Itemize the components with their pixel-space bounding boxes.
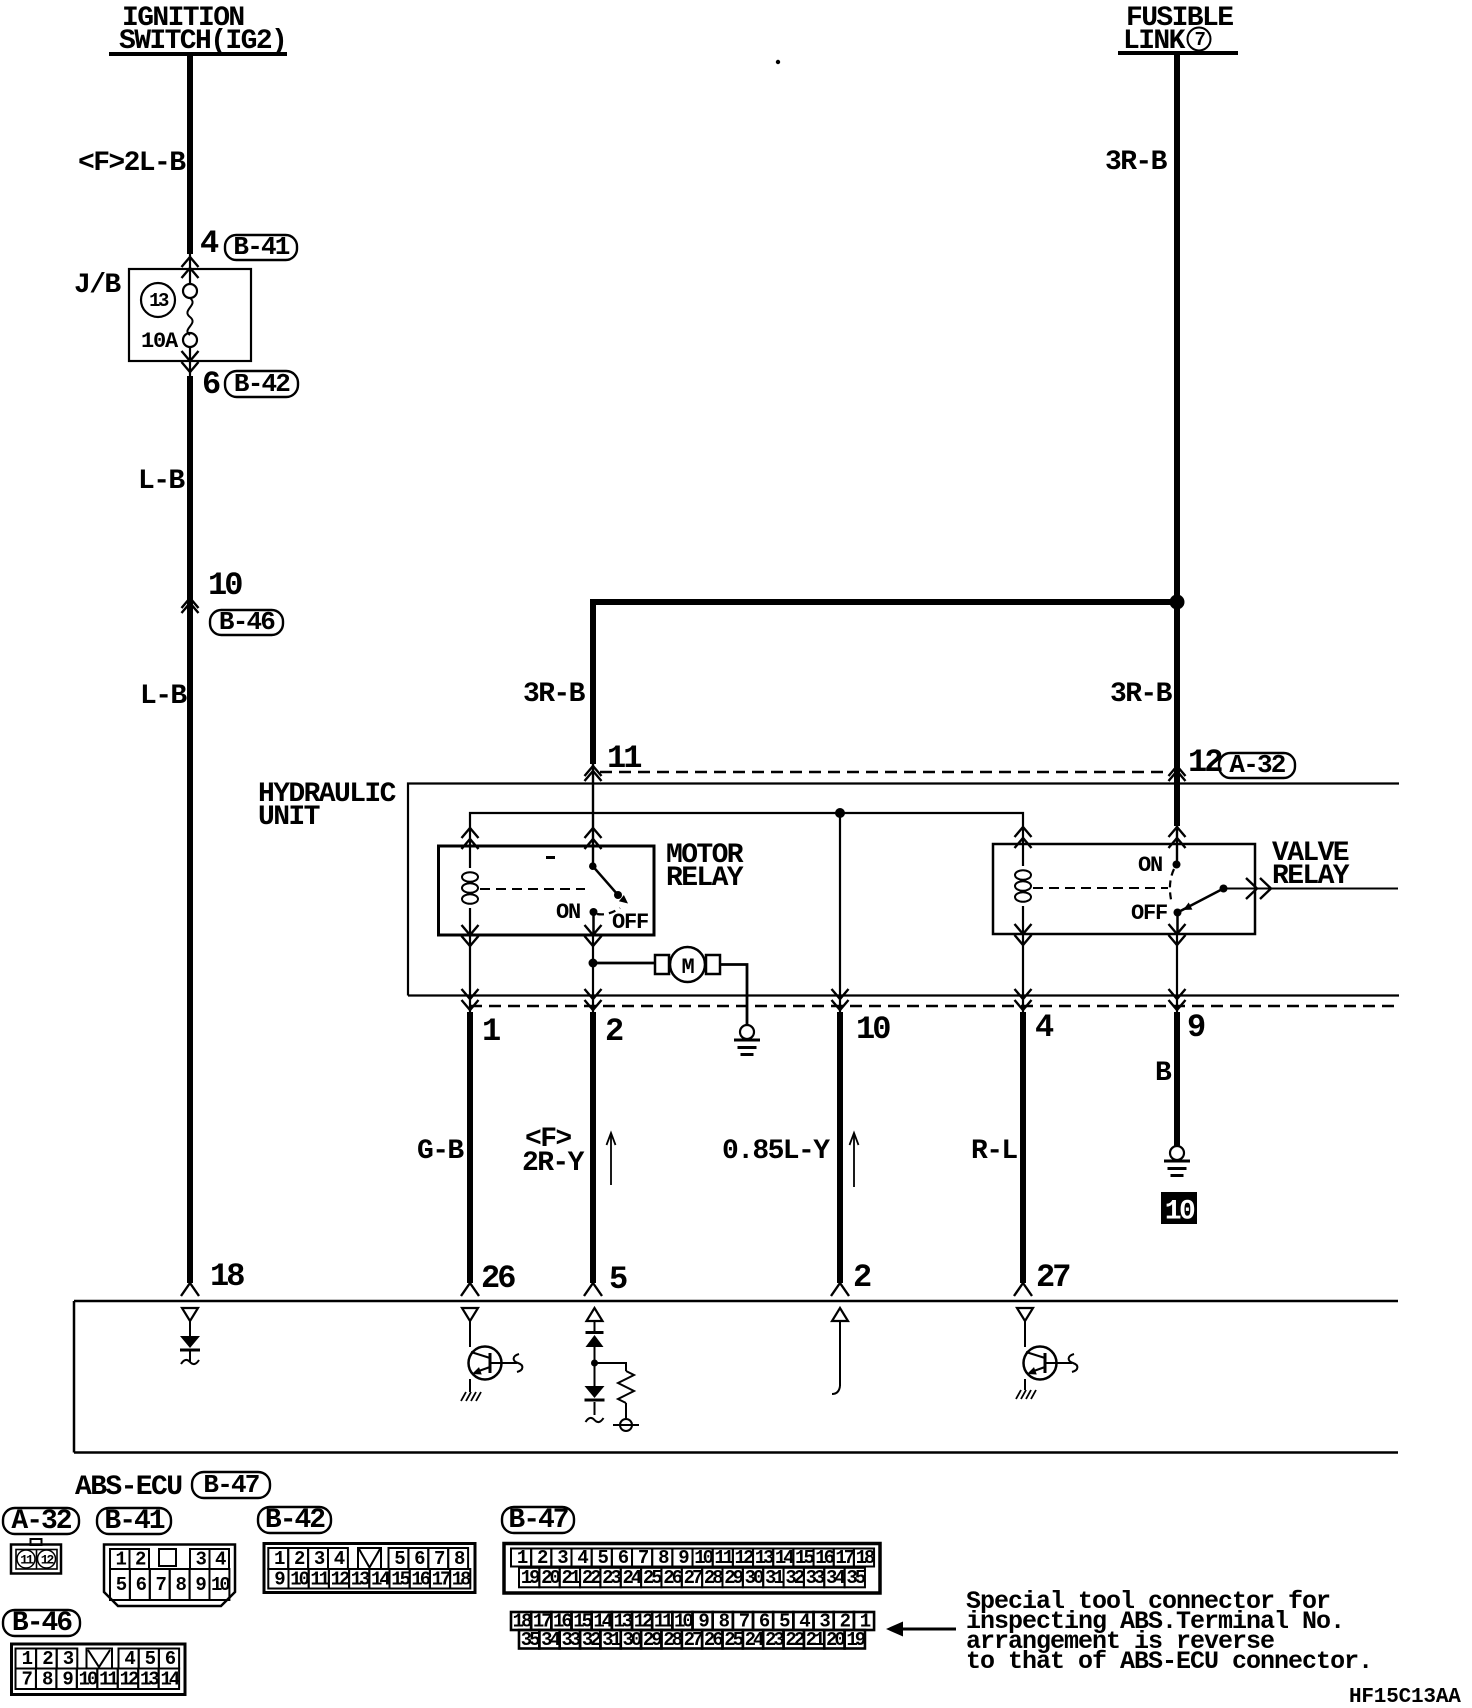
svg-text:11: 11 [714, 1547, 733, 1569]
svg-text:B-41: B-41 [104, 1506, 164, 1537]
junction to pump motor [589, 959, 598, 968]
wire from junction down to pin 10 [839, 813, 841, 1012]
wire 2R-Y pin 2 to ECU pin 5 [584, 1012, 602, 1296]
valve relay coil dashed link [1033, 887, 1168, 889]
svg-text:24: 24 [745, 1629, 764, 1651]
junction to pin 10 [835, 808, 845, 818]
svg-text:4: 4 [200, 225, 219, 262]
pin 4 of connector B-41 [200, 225, 219, 262]
motor relay coil dashed link [480, 888, 585, 890]
svg-text:26: 26 [704, 1629, 723, 1651]
svg-text:J/B: J/B [74, 270, 121, 301]
connector B-46 section label [3, 1608, 80, 1639]
chevrons above motor relay contact [585, 764, 602, 866]
svg-text:13: 13 [140, 1668, 159, 1690]
label (F)2L-B [78, 148, 186, 179]
svg-text:R-L: R-L [971, 1136, 1017, 1167]
wire motor relay contact to pin 2 [592, 935, 594, 1012]
svg-text:9: 9 [1187, 1009, 1205, 1046]
special tool connector pin layout [511, 1611, 874, 1651]
connector B-46 pin layout [12, 1644, 186, 1695]
connector B-41 section label [97, 1506, 171, 1537]
svg-text:34: 34 [826, 1567, 845, 1589]
ABS-ECU label [75, 1472, 182, 1503]
pump motor ground [734, 1025, 760, 1056]
connector B-41 ref label [225, 232, 297, 262]
svg-text:OFF: OFF [1131, 901, 1167, 926]
svg-text:34: 34 [541, 1629, 560, 1651]
label 10A [141, 329, 179, 354]
svg-text:33: 33 [561, 1629, 580, 1651]
connector B-47 pin layout [504, 1544, 880, 1594]
motor relay ON label [556, 900, 580, 925]
svg-text:2: 2 [605, 1013, 623, 1050]
svg-text:12: 12 [120, 1668, 139, 1690]
svg-text:21: 21 [561, 1567, 580, 1589]
wire 3R-B from fusible link [1174, 55, 1180, 826]
svg-text:ON: ON [556, 900, 580, 925]
chevrons below valve relay coil [1015, 924, 1032, 945]
wire (F)2L-B from ignition switch [187, 56, 193, 254]
connector B-47 section label [502, 1505, 574, 1536]
svg-text:2R-Y: 2R-Y [522, 1148, 585, 1179]
connector chevrons B-46 [182, 598, 199, 613]
svg-text:2: 2 [853, 1259, 871, 1296]
label R-L [971, 1136, 1017, 1167]
fuse 13 10A [183, 254, 197, 376]
svg-text:14: 14 [775, 1547, 794, 1569]
label L-B lower [140, 681, 187, 712]
wire 3R-B horizontal branch [590, 599, 1177, 605]
svg-text:26: 26 [663, 1567, 682, 1589]
svg-text:29: 29 [643, 1629, 662, 1651]
svg-text:10: 10 [290, 1568, 309, 1590]
svg-text:19: 19 [521, 1567, 540, 1589]
hydraulic unit pin 1 chevrons [462, 989, 479, 1010]
wire valve relay coil to pin 4 [1022, 934, 1024, 1012]
svg-text:32: 32 [582, 1629, 601, 1651]
svg-text:25: 25 [643, 1567, 662, 1589]
ground at pin 9 wire B [1164, 1146, 1190, 1177]
svg-text:31: 31 [602, 1629, 621, 1651]
motor relay OFF label [612, 910, 648, 935]
ECU internal input at pin 2 [832, 1308, 848, 1394]
svg-text:10: 10 [694, 1547, 713, 1569]
svg-text:27: 27 [684, 1629, 703, 1651]
ECU internal transistor at pin 26 [461, 1308, 522, 1401]
connector chevrons at J/B output [182, 351, 199, 372]
diagram code HF15C13AA [1349, 1686, 1461, 1708]
connector A-32 pin layout [11, 1539, 61, 1574]
valve relay ON label [1138, 853, 1162, 878]
valve relay coil [1015, 844, 1031, 934]
svg-text:3R-B: 3R-B [523, 679, 586, 710]
chevrons above motor relay coil [462, 828, 479, 849]
svg-text:19: 19 [846, 1629, 865, 1651]
svg-text:21: 21 [806, 1629, 825, 1651]
ECU internal diode at pin 18 [180, 1308, 200, 1364]
svg-text:15: 15 [795, 1547, 814, 1569]
svg-text:B-47: B-47 [203, 1470, 258, 1500]
ground point 10 marker [1161, 1192, 1197, 1228]
hydraulic unit pin 2 label [605, 1013, 623, 1050]
hydraulic unit pin 9 chevrons [1169, 989, 1186, 1010]
wire G-B pin 1 to ECU pin 26 [461, 1012, 479, 1296]
svg-text:20: 20 [826, 1629, 845, 1651]
svg-text:G-B: G-B [417, 1136, 464, 1167]
svg-text:23: 23 [602, 1567, 621, 1589]
label L-B upper [138, 466, 185, 497]
svg-text:4: 4 [1035, 1009, 1054, 1046]
connector chevrons A-32 pin 12 [1169, 766, 1186, 781]
svg-text:16: 16 [815, 1547, 834, 1569]
chevrons above valve relay coil [1015, 827, 1032, 848]
svg-text:18: 18 [210, 1258, 244, 1295]
svg-text:10: 10 [856, 1011, 890, 1048]
label 3R-B mid left [523, 679, 586, 710]
svg-text:28: 28 [704, 1567, 723, 1589]
svg-text:RELAY: RELAY [1272, 861, 1350, 892]
fuse number 13 circle [141, 283, 175, 317]
svg-text:18: 18 [856, 1547, 875, 1569]
ECU pin 27 label [1036, 1259, 1070, 1296]
svg-text:11: 11 [99, 1668, 118, 1690]
label G-B [417, 1136, 464, 1167]
ECU pin 26 label [481, 1260, 515, 1297]
pin 10 of connector B-46 [208, 567, 242, 604]
svg-text:<F>2L-B: <F>2L-B [78, 148, 186, 179]
label 0.85L-Y [722, 1136, 830, 1167]
wire B pin 9 to ground [1174, 1012, 1180, 1146]
valve relay switch [1170, 861, 1228, 935]
terminal legs at ECU pin 18 [181, 1283, 199, 1296]
valve relay OFF label [1131, 901, 1167, 926]
svg-text:13: 13 [149, 290, 169, 312]
svg-text:L-B: L-B [138, 466, 185, 497]
hydraulic unit box [258, 779, 1399, 996]
svg-text:ABS-ECU: ABS-ECU [75, 1472, 182, 1503]
label (F)2R-Y [522, 1124, 585, 1179]
hydraulic unit pin 10 label [856, 1011, 890, 1048]
svg-text:33: 33 [806, 1567, 825, 1589]
svg-text:20: 20 [541, 1567, 560, 1589]
svg-text:30: 30 [623, 1629, 642, 1651]
svg-text:UNIT: UNIT [258, 802, 320, 833]
svg-text:10A: 10A [141, 329, 179, 354]
svg-text:17: 17 [432, 1568, 451, 1590]
svg-text:B-47: B-47 [508, 1505, 567, 1536]
svg-text:ON: ON [1138, 853, 1162, 878]
label 3R-B top [1105, 147, 1168, 178]
svg-text:22: 22 [582, 1567, 601, 1589]
motor relay switch [589, 862, 628, 935]
valve relay box [993, 844, 1255, 934]
svg-text:29: 29 [724, 1567, 743, 1589]
svg-text:0.85L-Y: 0.85L-Y [722, 1136, 830, 1167]
motor relay coil [462, 846, 478, 935]
svg-text:L-B: L-B [140, 681, 187, 712]
hydraulic unit pin 9 label [1187, 1009, 1205, 1046]
svg-text:16: 16 [411, 1568, 430, 1590]
wire 3R-B to motor relay [590, 602, 596, 764]
svg-text:18: 18 [452, 1568, 471, 1590]
svg-text:24: 24 [623, 1567, 642, 1589]
connector A-32 dashed boundary [600, 771, 1168, 774]
svg-text:10: 10 [208, 567, 242, 604]
ECU internal transistor at pin 27 [1016, 1308, 1077, 1399]
svg-text:B-46: B-46 [12, 1608, 72, 1639]
svg-text:25: 25 [724, 1629, 743, 1651]
connector B-42 pin layout [264, 1544, 475, 1593]
ECU internal diodes and resistor at pin 5 [585, 1308, 640, 1431]
svg-text:10: 10 [211, 1574, 230, 1596]
svg-text:14: 14 [160, 1668, 179, 1690]
chevrons below motor relay contact [585, 925, 602, 946]
motor relay polarity minus mark [546, 856, 555, 859]
label 3R-B mid right [1110, 679, 1173, 710]
svg-text:B: B [1155, 1058, 1172, 1089]
pin 12 of connector A-32 [1188, 744, 1222, 781]
motor relay box [439, 846, 655, 935]
svg-text:B-46: B-46 [219, 607, 275, 637]
motor relay label [666, 840, 744, 894]
svg-text:27: 27 [1036, 1259, 1070, 1296]
junction block J/B [74, 269, 251, 361]
svg-text:12: 12 [331, 1568, 350, 1590]
wire valve relay contact to pin 9 [1176, 934, 1178, 1012]
svg-text:6: 6 [202, 366, 220, 403]
hydraulic unit pin 4 chevrons [1015, 989, 1032, 1010]
connector chevrons A-32 pin 11 [585, 766, 602, 781]
pin 18 of ABS-ECU [210, 1258, 244, 1295]
node FUSIBLE LINK 7 terminal [1118, 3, 1238, 57]
junction of 3R-B branch [1170, 595, 1185, 610]
svg-text:30: 30 [745, 1567, 764, 1589]
hydraulic unit pin 1 label [482, 1013, 500, 1050]
wire R-L pin 4 to ECU pin 27 [1014, 1012, 1032, 1296]
valve relay output wire with arrows [1227, 878, 1398, 899]
hydraulic unit pin 10 chevrons [832, 989, 849, 1010]
wire L-B from J/B to ABS-ECU pin 18 [187, 376, 193, 1283]
svg-text:10: 10 [79, 1668, 98, 1690]
svg-text:28: 28 [663, 1629, 682, 1651]
svg-text:12: 12 [1188, 744, 1222, 781]
svg-text:15: 15 [391, 1568, 410, 1590]
ECU pin 2 label [853, 1259, 871, 1296]
wire to pump motor [593, 962, 655, 965]
special tool note text [966, 1587, 1372, 1676]
svg-text:to that of ABS-ECU connector.: to that of ABS-ECU connector. [966, 1647, 1372, 1676]
svg-text:32: 32 [785, 1567, 804, 1589]
stray dot [776, 60, 780, 64]
svg-text:12: 12 [735, 1547, 754, 1569]
svg-text:A-32: A-32 [11, 1506, 71, 1537]
wire inside hydraulic unit to relay coils [470, 813, 1023, 845]
connector B-42 ref label [225, 369, 298, 399]
node IGNITION SWITCH(IG2) terminal [109, 3, 287, 57]
svg-text:B-42: B-42 [265, 1505, 325, 1536]
chevrons below valve relay contact [1169, 924, 1186, 945]
svg-text:B-42: B-42 [234, 369, 290, 399]
direction arrow at 2R-Y [607, 1133, 616, 1185]
connector A-32 ref label [1219, 750, 1295, 780]
svg-text:27: 27 [684, 1567, 703, 1589]
wire 0.85L-Y pin 10 to ECU pin 2 [831, 1012, 849, 1296]
svg-text:14: 14 [371, 1568, 390, 1590]
direction arrow at 0.85L-Y [850, 1133, 859, 1187]
svg-text:HF15C13AA: HF15C13AA [1349, 1686, 1461, 1708]
svg-text:OFF: OFF [612, 910, 648, 935]
svg-text:3R-B: 3R-B [1110, 679, 1173, 710]
svg-text:26: 26 [481, 1260, 515, 1297]
svg-text:RELAY: RELAY [666, 863, 744, 894]
connector A-32 section label [3, 1506, 79, 1537]
svg-text:5: 5 [609, 1261, 627, 1298]
svg-text:M: M [681, 955, 694, 980]
label B [1155, 1058, 1172, 1089]
svg-text:B-41: B-41 [233, 232, 289, 262]
wire pump motor to ground [720, 965, 747, 1026]
svg-text:13: 13 [755, 1547, 774, 1569]
special tool pointer arrow [886, 1622, 956, 1637]
svg-text:A-32: A-32 [1229, 750, 1285, 780]
ABS-ECU connector B-47 ref label [192, 1470, 270, 1500]
connector B-46 ref label [210, 607, 283, 637]
hydraulic unit pin 2 chevrons [585, 989, 602, 1010]
svg-text:23: 23 [765, 1629, 784, 1651]
svg-text:3R-B: 3R-B [1105, 147, 1168, 178]
svg-text:22: 22 [785, 1629, 804, 1651]
svg-text:13: 13 [351, 1568, 370, 1590]
chevrons above valve relay contact [1169, 826, 1186, 864]
svg-text:17: 17 [835, 1547, 854, 1569]
svg-text:1: 1 [482, 1013, 500, 1050]
ABS-ECU box [74, 1301, 1398, 1453]
pump motor M [655, 947, 720, 982]
svg-text:10: 10 [1165, 1197, 1195, 1228]
svg-text:35: 35 [846, 1567, 865, 1589]
hydraulic unit connector dashed boundary [470, 1005, 1400, 1007]
ECU pin 5 label [609, 1261, 627, 1298]
wire motor relay coil to pin 1 [469, 935, 471, 1012]
connector chevrons at J/B input [182, 257, 199, 278]
pin 6 of connector B-42 [202, 366, 220, 403]
connector B-41 pin layout [104, 1545, 235, 1607]
connector B-42 section label [258, 1505, 331, 1536]
svg-text:31: 31 [765, 1567, 784, 1589]
valve relay label [1272, 838, 1350, 892]
chevrons below motor relay coil [462, 925, 479, 946]
svg-text:11: 11 [310, 1568, 329, 1590]
hydraulic unit pin 4 label [1035, 1009, 1054, 1046]
svg-text:35: 35 [521, 1629, 540, 1651]
pin 11 of connector A-32 [607, 740, 641, 777]
